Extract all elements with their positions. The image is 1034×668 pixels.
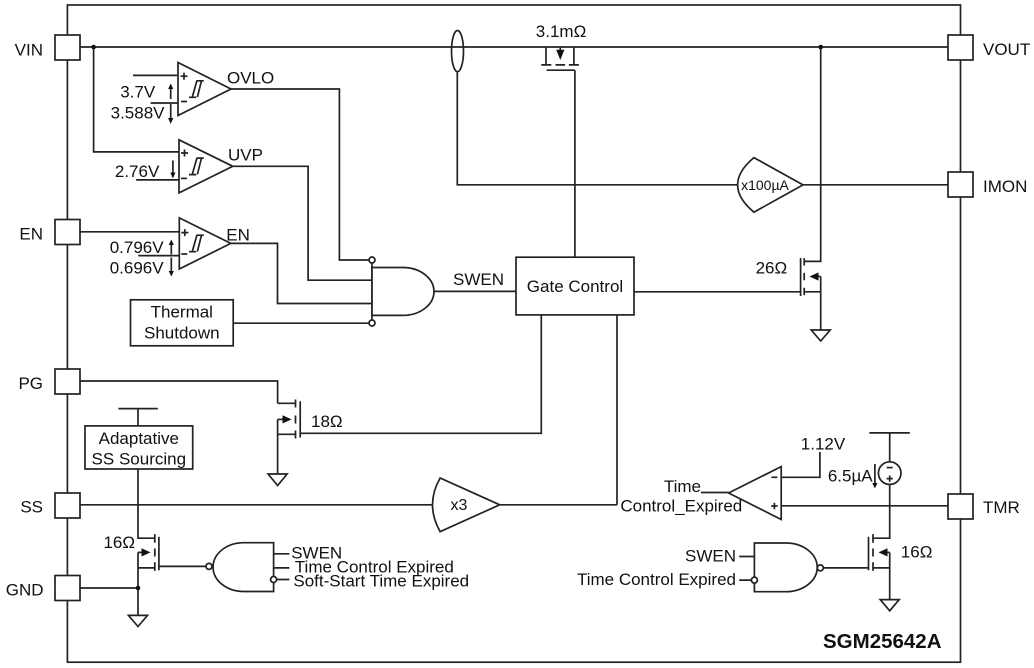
svg-text:TMR: TMR [983, 498, 1020, 517]
svg-text:Control_Expired: Control_Expired [620, 496, 742, 515]
svg-text:SS Sourcing: SS Sourcing [92, 449, 187, 468]
svg-text:16Ω: 16Ω [103, 533, 135, 552]
svg-text:3.7V: 3.7V [120, 82, 156, 101]
svg-text:SGM25642A: SGM25642A [823, 630, 942, 653]
svg-text:2.76V: 2.76V [115, 162, 160, 181]
svg-text:x3: x3 [451, 497, 468, 514]
svg-text:VOUT: VOUT [983, 40, 1030, 59]
svg-text:Gate Control: Gate Control [527, 277, 623, 296]
svg-text:x100µA: x100µA [741, 177, 789, 193]
svg-text:Soft-Start Time Expired: Soft-Start Time Expired [293, 571, 469, 590]
svg-text:OVLO: OVLO [227, 69, 274, 88]
svg-text:SS: SS [20, 498, 43, 517]
svg-text:Adaptative: Adaptative [99, 429, 179, 448]
svg-text:0.696V: 0.696V [110, 259, 165, 278]
svg-text:SWEN: SWEN [685, 547, 736, 566]
svg-text:Shutdown: Shutdown [144, 324, 220, 343]
svg-text:6.5µA: 6.5µA [828, 467, 873, 486]
svg-text:PG: PG [18, 374, 43, 393]
svg-text:0.796V: 0.796V [110, 238, 165, 257]
svg-text:Time Control Expired: Time Control Expired [577, 570, 736, 589]
svg-text:Thermal: Thermal [151, 303, 213, 322]
svg-text:GND: GND [6, 581, 44, 600]
svg-text:SWEN: SWEN [453, 270, 504, 289]
svg-text:IMON: IMON [983, 177, 1027, 196]
svg-text:3.1mΩ: 3.1mΩ [536, 22, 587, 41]
svg-text:EN: EN [226, 226, 250, 245]
svg-text:UVP: UVP [228, 146, 263, 165]
svg-text:3.588V: 3.588V [111, 103, 166, 122]
svg-text:VIN: VIN [15, 41, 43, 60]
svg-text:26Ω: 26Ω [756, 259, 788, 278]
svg-text:Time: Time [664, 477, 701, 496]
svg-text:1.12V: 1.12V [801, 434, 846, 453]
svg-text:EN: EN [19, 225, 43, 244]
svg-text:18Ω: 18Ω [311, 412, 343, 431]
svg-text:16Ω: 16Ω [901, 543, 933, 562]
